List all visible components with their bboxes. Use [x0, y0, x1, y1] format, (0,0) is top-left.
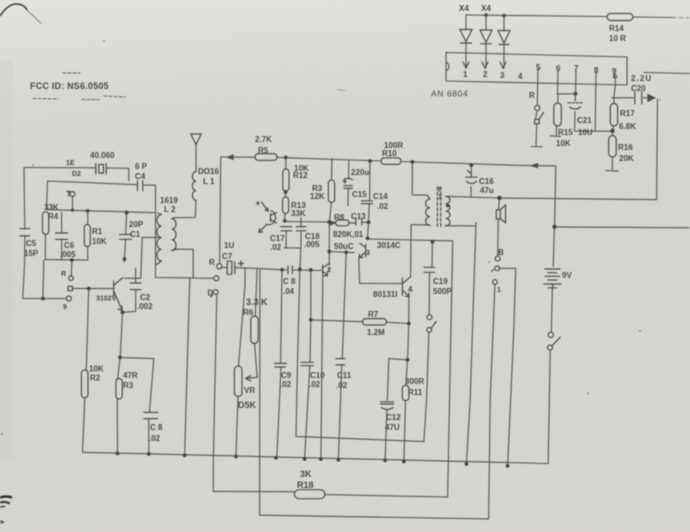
- svg-text:3.3 K: 3.3 K: [246, 297, 268, 307]
- svg-text:10K: 10K: [89, 365, 104, 374]
- svg-text:6 P: 6 P: [135, 162, 148, 171]
- svg-text:C17: C17: [270, 234, 285, 243]
- svg-text:R14: R14: [609, 24, 624, 33]
- svg-text:AN 6804: AN 6804: [431, 89, 468, 99]
- svg-text:C12: C12: [386, 413, 401, 422]
- svg-text:5: 5: [536, 63, 541, 72]
- svg-text:R6: R6: [243, 308, 254, 317]
- svg-text:C15: C15: [352, 190, 367, 199]
- svg-text:47U: 47U: [385, 423, 400, 432]
- svg-text:.02: .02: [270, 243, 282, 252]
- svg-text:33K: 33K: [44, 203, 59, 212]
- svg-text:3: 3: [366, 250, 370, 257]
- svg-text:1: 1: [497, 287, 501, 294]
- svg-text:500P: 500P: [433, 287, 452, 296]
- svg-text:C2: C2: [140, 293, 151, 302]
- svg-text:C19: C19: [433, 277, 448, 286]
- svg-text:220u: 220u: [351, 168, 369, 177]
- svg-text:9: 9: [63, 304, 67, 311]
- svg-text:R12: R12: [293, 171, 308, 180]
- svg-text:.02: .02: [377, 202, 389, 211]
- svg-text:8: 8: [594, 66, 599, 75]
- svg-text:C 8: C 8: [150, 423, 163, 432]
- svg-text:C1: C1: [130, 230, 141, 239]
- svg-text:R3: R3: [123, 381, 134, 390]
- svg-text:R11: R11: [408, 388, 423, 397]
- svg-text:47R: 47R: [123, 371, 138, 380]
- svg-text:X4: X4: [481, 4, 491, 13]
- svg-text:47u: 47u: [480, 186, 494, 195]
- svg-text:9V: 9V: [562, 271, 572, 280]
- svg-text:C13: C13: [351, 212, 366, 221]
- svg-text:20P: 20P: [129, 220, 144, 229]
- svg-text:6.8K: 6.8K: [619, 122, 636, 131]
- svg-text:DO16: DO16: [198, 167, 219, 176]
- svg-text:C5: C5: [26, 239, 37, 248]
- svg-text:R: R: [529, 91, 535, 100]
- svg-text:1U: 1U: [224, 241, 234, 250]
- svg-text:C10: C10: [310, 371, 325, 380]
- svg-text:C21: C21: [577, 116, 592, 125]
- svg-text:1.2M: 1.2M: [367, 328, 385, 337]
- svg-text:20K: 20K: [619, 154, 634, 163]
- svg-text:3K: 3K: [300, 469, 312, 479]
- svg-text:40.060: 40.060: [90, 151, 115, 160]
- svg-text:.02: .02: [280, 380, 292, 389]
- svg-text:L 1: L 1: [203, 177, 215, 186]
- svg-text:C9: C9: [281, 371, 292, 380]
- svg-text:1E: 1E: [66, 160, 75, 167]
- svg-text:C4: C4: [135, 172, 146, 181]
- svg-text:6: 6: [556, 64, 561, 73]
- svg-text:820K,01: 820K,01: [333, 230, 364, 239]
- svg-text:15P: 15P: [24, 249, 39, 258]
- svg-text:1: 1: [438, 194, 442, 201]
- svg-text:R17: R17: [620, 109, 635, 118]
- svg-text:.04: .04: [283, 287, 295, 296]
- svg-text:2: 2: [483, 70, 488, 79]
- svg-text:.005: .005: [60, 250, 76, 259]
- svg-text:R: R: [209, 258, 215, 267]
- svg-text:2.7K: 2.7K: [255, 135, 272, 144]
- svg-text:X4: X4: [459, 4, 469, 13]
- svg-text:VR: VR: [244, 386, 255, 395]
- svg-text:3102V: 3102V: [96, 296, 117, 303]
- svg-text:C16: C16: [479, 177, 494, 186]
- svg-text:7: 7: [574, 64, 579, 73]
- svg-text:4: 4: [408, 285, 413, 294]
- svg-text:1: 1: [463, 70, 468, 79]
- svg-text:C7: C7: [222, 252, 233, 261]
- svg-text:C14: C14: [373, 192, 388, 201]
- svg-text:R15: R15: [558, 128, 573, 137]
- svg-text:C11: C11: [337, 371, 352, 380]
- svg-text:FCC ID: NS6.0505: FCC ID: NS6.0505: [30, 81, 109, 91]
- svg-text:D5K: D5K: [238, 400, 257, 410]
- svg-text:3014C: 3014C: [377, 241, 401, 250]
- svg-text:B: B: [498, 248, 504, 257]
- svg-text:R2: R2: [90, 374, 101, 383]
- svg-text:2: 2: [327, 267, 331, 274]
- svg-text:50uC: 50uC: [334, 242, 354, 251]
- svg-text:R7: R7: [368, 310, 379, 319]
- svg-text:D2: D2: [72, 171, 81, 178]
- svg-text:R1: R1: [92, 227, 103, 236]
- svg-text:D: D: [208, 289, 214, 298]
- svg-text:C20: C20: [631, 84, 646, 93]
- svg-text:10 R: 10 R: [609, 34, 626, 43]
- svg-text:10K: 10K: [556, 139, 571, 148]
- svg-text:R18: R18: [297, 480, 314, 490]
- svg-text:.02: .02: [336, 381, 348, 390]
- svg-text:.002: .002: [137, 302, 153, 311]
- svg-text:10K: 10K: [92, 237, 107, 246]
- svg-text:C6: C6: [64, 241, 75, 250]
- svg-text:R8: R8: [334, 213, 345, 222]
- svg-text:4: 4: [518, 72, 523, 81]
- svg-text:1619: 1619: [160, 196, 178, 205]
- svg-text:33K: 33K: [291, 209, 306, 218]
- svg-text:R10: R10: [382, 149, 397, 158]
- svg-text:R16: R16: [618, 143, 633, 152]
- svg-text:L 2: L 2: [164, 205, 176, 214]
- svg-text:C 8: C 8: [283, 277, 296, 286]
- svg-text:300R: 300R: [405, 377, 424, 386]
- svg-text:10U: 10U: [578, 128, 593, 137]
- svg-text:.005: .005: [304, 240, 320, 249]
- svg-text:.02: .02: [149, 434, 161, 443]
- svg-text:3: 3: [500, 71, 505, 80]
- svg-text:R5: R5: [258, 146, 269, 155]
- svg-text:R4: R4: [48, 212, 59, 221]
- svg-text:12K: 12K: [310, 192, 325, 201]
- svg-text:.02: .02: [309, 380, 321, 389]
- svg-text:2.2U: 2.2U: [631, 74, 652, 83]
- svg-text:T: T: [437, 187, 442, 194]
- svg-text:80131I: 80131I: [373, 290, 397, 299]
- svg-text:R: R: [61, 271, 66, 278]
